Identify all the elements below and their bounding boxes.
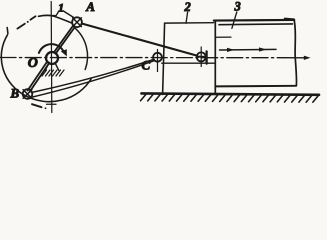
svg-text:3: 3 xyxy=(234,0,241,13)
ground hatch under O xyxy=(42,70,64,76)
vertical centerline through O xyxy=(50,2,53,113)
centerline tick at circle bottom xyxy=(47,103,57,105)
wheel 1 outer circle top arc xyxy=(39,15,73,23)
pivot O support triangle xyxy=(45,63,58,70)
rotation arrow omega xyxy=(39,44,64,53)
pedestal top edge xyxy=(162,62,215,64)
pin C xyxy=(153,53,162,62)
centerline tick at circle top xyxy=(44,15,55,17)
pin D xyxy=(197,52,206,61)
svg-text:B: B xyxy=(10,86,20,101)
pin B xyxy=(23,89,33,99)
bracket 2 left edge xyxy=(163,23,165,94)
block 3 top-right lip xyxy=(285,18,294,21)
block 3 right edge xyxy=(294,20,296,86)
block 3 internal line xyxy=(216,36,232,38)
label 1 tail xyxy=(56,12,58,16)
leader line from label 3 xyxy=(232,12,237,28)
pin C vertical centerline tick xyxy=(157,50,159,72)
bracket 2 right edge xyxy=(214,21,216,93)
svg-text:O: O xyxy=(28,56,38,71)
wheel 1 outer circle dashed upper-left arc xyxy=(17,16,35,28)
crank arm O-B (double line) xyxy=(28,61,48,90)
link B-C lower line xyxy=(31,61,154,98)
centerline solid end with arrow xyxy=(283,57,305,59)
ground hatching xyxy=(141,94,319,102)
bracket 2 top edge xyxy=(165,22,214,24)
connecting rod A-D xyxy=(82,24,197,56)
centerline dash through D xyxy=(198,56,205,58)
crank arm O-A (double line) xyxy=(54,26,73,53)
ground line right xyxy=(142,93,320,94)
motion arrow inside block 3 xyxy=(220,48,277,51)
pin D vertical tick xyxy=(200,47,202,67)
svg-text:2: 2 xyxy=(184,0,191,14)
piston rod end plate xyxy=(205,51,207,63)
pivot O hub xyxy=(46,52,58,64)
wheel 1 outer circle (pitch circle, solid part) xyxy=(1,35,91,102)
svg-text:C: C xyxy=(142,58,151,73)
wheel 1 inner rim arc xyxy=(74,27,88,69)
block 3 second top line xyxy=(219,23,293,26)
svg-text:A: A xyxy=(85,0,95,14)
dash-dot tangent mark at B xyxy=(32,104,42,107)
leader line from label 1 to pin A xyxy=(63,11,73,17)
block 3 top edge xyxy=(214,19,294,22)
svg-text:1: 1 xyxy=(58,0,64,14)
link B-C upper line xyxy=(32,60,154,93)
leader line from label 2 xyxy=(186,12,188,23)
block 3 bottom edge xyxy=(215,85,296,88)
horizontal dash-dot centerline xyxy=(0,57,283,59)
pin A xyxy=(72,17,82,27)
